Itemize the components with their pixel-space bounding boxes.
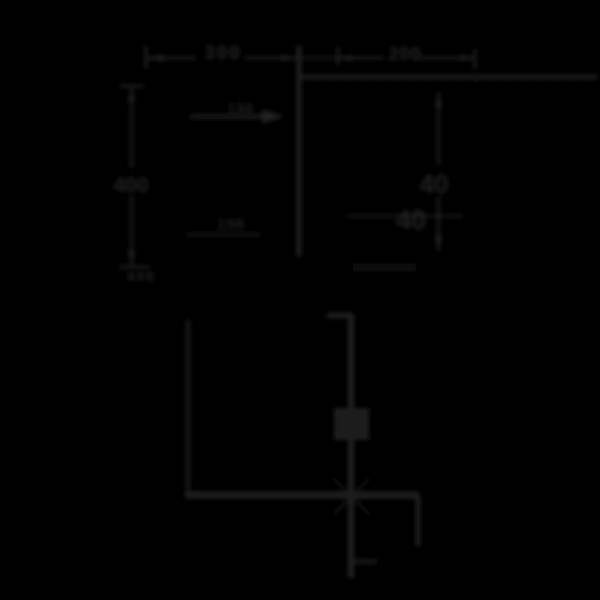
main horizontal member [185, 492, 419, 498]
dimension line D5 (right vertical) [435, 92, 442, 251]
leader line L2 with label [187, 216, 260, 235]
svg-text:40: 40 [396, 205, 426, 235]
lower figure: left member (vertical wire) [186, 320, 189, 496]
svg-text:400: 400 [113, 174, 148, 197]
dimension line D1 (top-left span) [146, 46, 296, 70]
lower figure: main vertical member [348, 315, 354, 578]
hook: corner down at right end [416, 496, 420, 546]
dimension line D2 (short middle span) [301, 57, 336, 59]
faint label bar below D5 [353, 264, 416, 272]
dimension line D4 (left vertical) [119, 86, 150, 267]
dimension line D3 (top-right span) [338, 47, 475, 69]
svg-text:150: 150 [217, 216, 245, 233]
stub at lower end of main member [353, 560, 377, 563]
svg-text:150: 150 [228, 100, 254, 116]
top bar on main member [327, 313, 353, 318]
ceiling line (fixed support) [302, 75, 599, 79]
ceiling hatching [310, 79, 590, 90]
faint extension line right [476, 80, 478, 190]
rod (vertical bar through ceiling) [297, 46, 302, 256]
svg-text:200: 200 [388, 44, 421, 64]
dimension/leader line L1 with label 40 [347, 205, 462, 235]
svg-text:300: 300 [204, 43, 242, 64]
force arrow F1 (points right at rod) [190, 100, 284, 124]
X cross joint at member intersection [333, 478, 370, 515]
svg-text:40: 40 [420, 169, 449, 199]
svg-text:400: 400 [127, 268, 156, 284]
slider block (filled square on member) [334, 408, 369, 440]
